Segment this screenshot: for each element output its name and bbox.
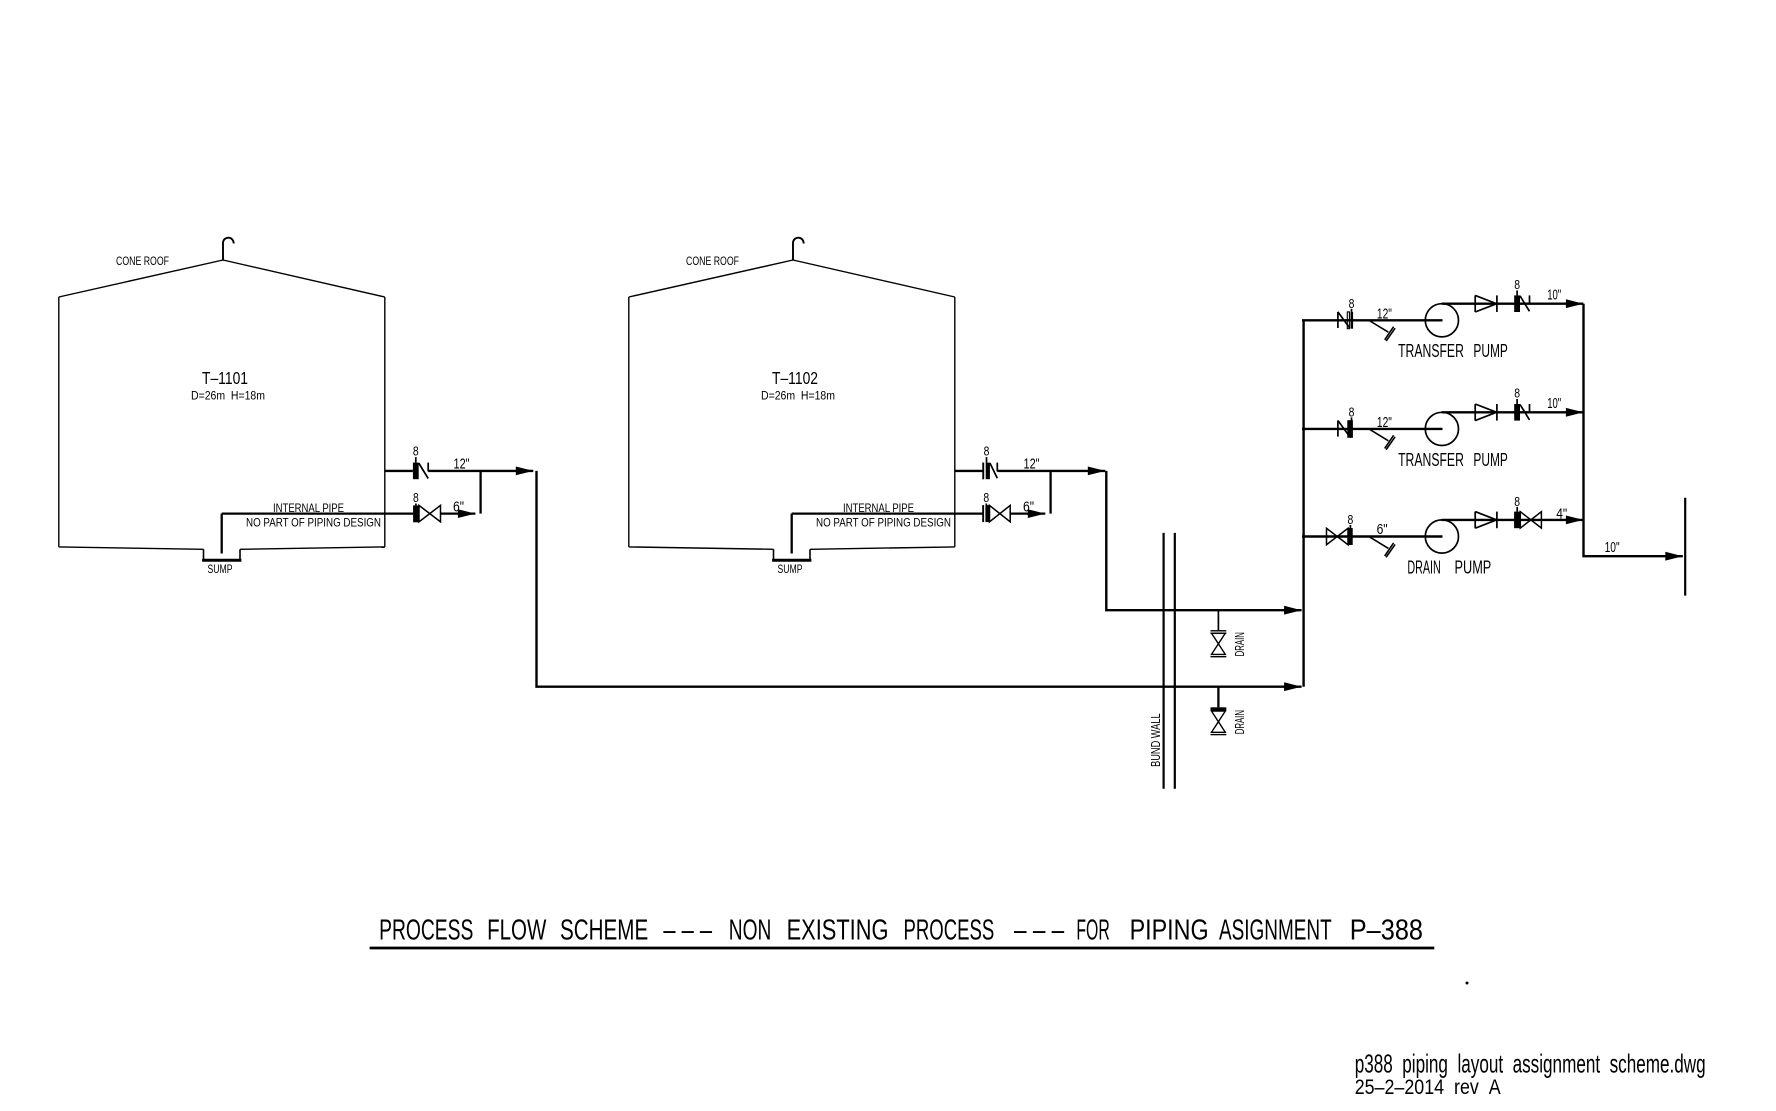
svg-text:– – –: – – – [1014, 914, 1064, 946]
tank T-1101 sump [202, 549, 241, 560]
svg-text:DRAIN: DRAIN [1407, 557, 1440, 577]
drain branch stem (upper run drain) [1217, 610, 1219, 631]
tank T-1101 shell [59, 297, 385, 549]
svg-text:SUMP: SUMP [778, 564, 803, 576]
wire: transfer pump 2 discharge line [1442, 411, 1584, 413]
svg-text:DRAIN: DRAIN [1233, 710, 1247, 734]
svg-text:10": 10" [1547, 288, 1561, 304]
arrow: T-1101 12in flow arrow [516, 467, 534, 476]
internal pipe of T-1101 [222, 514, 413, 554]
svg-text:8: 8 [413, 444, 419, 459]
svg-text:T–1101: T–1101 [202, 368, 248, 388]
svg-text:8: 8 [983, 490, 989, 505]
check valve on drain pump discharge [1475, 512, 1497, 529]
tank T-1102 cone roof [629, 260, 955, 297]
wire: transfer pump 1 suction line [1302, 319, 1443, 321]
svg-text:PUMP: PUMP [1473, 450, 1508, 470]
arrow: drain pump discharge into header [1566, 516, 1584, 525]
svg-text:BUND WALL: BUND WALL [1148, 713, 1163, 767]
scope break symbol (drain pump) [1370, 537, 1395, 557]
check valve on transfer pump 1 discharge [1475, 295, 1497, 312]
svg-text:FOR: FOR [1076, 914, 1109, 946]
wire: riser joining 6in to 12in line (T-1102) [1049, 471, 1051, 514]
svg-text:CONE ROOF: CONE ROOF [116, 256, 169, 268]
wire: T-1102 6in outlet line segment [1011, 512, 1046, 514]
svg-text:SUMP: SUMP [208, 564, 233, 576]
svg-text:12": 12" [1024, 456, 1040, 472]
svg-text:8: 8 [1348, 512, 1354, 527]
svg-text:P–388: P–388 [1350, 914, 1423, 946]
bund wall line 1 [1162, 533, 1164, 789]
svg-text:12": 12" [454, 456, 470, 472]
drain branch stem (lower run drain) [1217, 687, 1219, 708]
wire: drain pump discharge line [1442, 519, 1584, 521]
gate valve V3 on T-1102 12in outlet [982, 457, 997, 479]
scope break symbol (transfer pump 1) [1370, 321, 1395, 341]
tank T-1101 cone roof [59, 260, 385, 297]
svg-text:12": 12" [1377, 415, 1392, 431]
arrow: transfer pump 2 discharge into header [1566, 408, 1584, 417]
gate valve V1 on T-1101 12in outlet [413, 457, 428, 479]
svg-text:PUMP: PUMP [1473, 341, 1508, 361]
label DRAIN PUMP [1407, 557, 1491, 577]
internal pipe of T-1102 [792, 514, 983, 554]
svg-text:8: 8 [1349, 405, 1355, 420]
wire: transfer pump 2 suction line [1302, 428, 1443, 430]
arrow: T-1102 12in flow arrow [1088, 467, 1106, 476]
svg-text:INTERNAL PIPE: INTERNAL PIPE [843, 501, 914, 515]
title text [379, 914, 1423, 946]
svg-text:8: 8 [1514, 494, 1520, 509]
bund wall line 2 [1174, 533, 1176, 789]
arrow: bottom run into suction header [1284, 682, 1302, 691]
svg-text:8: 8 [413, 490, 419, 505]
title underline [370, 947, 1435, 950]
tank T-1102 roof vent hook [793, 238, 804, 260]
wire: T-1102 line drop and upper run to pump header [1106, 471, 1301, 610]
svg-text:8: 8 [1514, 277, 1520, 292]
scope break symbol (transfer pump 2) [1370, 430, 1395, 450]
wire: T-1102 12in outlet line [955, 470, 983, 472]
svg-text:– – –: – – – [663, 914, 712, 946]
tank T-1102 shell [629, 297, 955, 549]
gate valve V2 on T-1101 6in outlet (blind + bowtie) [413, 504, 440, 523]
arrow: transfer pump 1 discharge into header [1566, 299, 1584, 308]
pump circle (transfer pump 1) [1425, 304, 1458, 337]
svg-text:4": 4" [1556, 506, 1567, 522]
svg-text:6": 6" [1377, 522, 1388, 538]
arrow: upper run into suction header [1284, 606, 1302, 615]
gate valve on transfer pump 1 discharge [1514, 290, 1529, 312]
svg-text:NO PART OF PIPING DESIGN: NO PART OF PIPING DESIGN [816, 515, 951, 529]
gate valve V4 on T-1102 6in outlet (blind + bowtie) [982, 504, 1010, 523]
pump circle (drain pump) [1425, 520, 1458, 553]
svg-text:10": 10" [1547, 396, 1561, 412]
svg-text:PIPING: PIPING [1130, 914, 1209, 946]
svg-text:T–1102: T–1102 [772, 368, 818, 388]
svg-text:8: 8 [984, 444, 990, 459]
svg-text:ASIGNMENT: ASIGNMENT [1219, 914, 1332, 946]
svg-text:25–2–2014 rev A: 25–2–2014 rev A [1355, 1076, 1501, 1099]
wire: T-1101 12in outlet line [385, 470, 413, 472]
svg-text:SCHEME: SCHEME [560, 914, 648, 946]
svg-text:TRANSFER: TRANSFER [1398, 450, 1464, 470]
svg-text:NON: NON [729, 914, 772, 946]
svg-text:D=26m H=18m: D=26m H=18m [191, 389, 265, 403]
wire: transfer pump 1 discharge line [1442, 303, 1584, 305]
drain valve (lower run drain) [1211, 707, 1227, 734]
gate valve on transfer pump 1 suction [1338, 309, 1353, 329]
arrow: T-1102 6in flow arrow [1028, 509, 1046, 518]
svg-text:10": 10" [1605, 540, 1620, 556]
svg-text:p388 piping layout assignme: p388 piping layout assignment scheme.dwg [1355, 1049, 1706, 1079]
gate valve on transfer pump 2 suction [1338, 417, 1353, 437]
svg-text:INTERNAL PIPE: INTERNAL PIPE [273, 501, 344, 515]
pump circle (transfer pump 2) [1425, 412, 1458, 445]
check valve on transfer pump 2 discharge [1475, 404, 1497, 421]
svg-text:NO PART OF PIPING DESIGN: NO PART OF PIPING DESIGN [246, 515, 381, 529]
svg-text:12": 12" [1377, 306, 1392, 322]
svg-text:8: 8 [1349, 296, 1355, 311]
tank T-1101 roof vent hook [223, 238, 234, 260]
svg-text:PUMP: PUMP [1455, 557, 1492, 577]
drain valve (upper run drain) [1211, 631, 1227, 657]
gate valve on drain pump suction (bowtie + blind) [1327, 525, 1353, 545]
arrow: T-1101 6in flow arrow [458, 509, 476, 518]
svg-text:CONE ROOF: CONE ROOF [686, 256, 739, 268]
wire: T-1101 line drop and bottom run to pump header [537, 471, 1302, 687]
stray plot dot [1466, 982, 1469, 985]
label TRANSFER PUMP [1398, 341, 1508, 361]
svg-text:PROCESS: PROCESS [379, 914, 473, 946]
gate valve on transfer pump 2 discharge [1514, 399, 1529, 421]
wire: pump suction header [1302, 320, 1304, 686]
svg-text:8: 8 [1514, 386, 1520, 401]
tank T-1102 sump [772, 549, 811, 560]
node: battery limit end bar [1684, 498, 1686, 596]
wire: drain pump suction line [1302, 535, 1443, 537]
svg-text:FLOW: FLOW [487, 914, 546, 946]
wire: pump discharge header and 10in outlet run [1584, 304, 1683, 557]
arrow: 10in outlet [1665, 552, 1683, 561]
wire: riser joining 6in to 12in line (T-1101) [479, 471, 481, 514]
svg-text:TRANSFER: TRANSFER [1398, 341, 1464, 361]
svg-text:D=26m H=18m: D=26m H=18m [761, 389, 835, 403]
gate valve on drain pump discharge (blind + bowtie) [1514, 507, 1541, 528]
svg-text:EXISTING: EXISTING [787, 914, 889, 946]
label TRANSFER PUMP [1398, 450, 1508, 470]
svg-text:PROCESS: PROCESS [904, 914, 995, 946]
wire: T-1101 6in outlet line segment [441, 512, 476, 514]
svg-text:DRAIN: DRAIN [1233, 632, 1247, 656]
